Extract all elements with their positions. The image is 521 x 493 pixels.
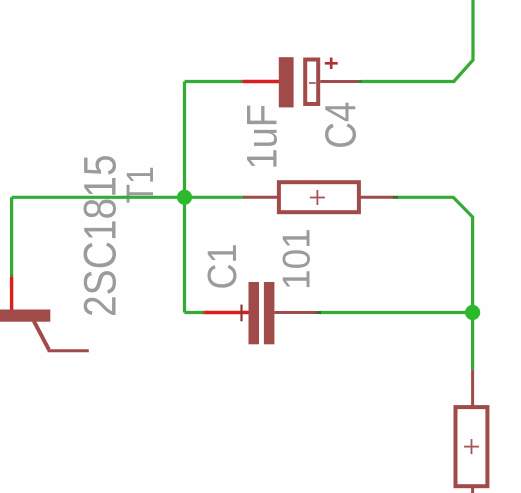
label 1uF value — [237, 104, 286, 169]
label T1 name — [120, 166, 162, 203]
wire net N1 horizontal to C4 — [361, 80, 455, 83]
svg-text:C4: C4 — [317, 102, 365, 149]
svg-text:1uF: 1uF — [237, 104, 286, 169]
svg-text:2SC1815: 2SC1815 — [75, 154, 126, 317]
wire net N3 vertical x=472.6 — [471, 216, 474, 370]
wire net N2 vertical left x=11.6 — [10, 197, 13, 276]
junction dot B at (472.6,312.5) — [465, 305, 480, 320]
resistor R2 vertical — [456, 370, 488, 493]
resistor R1 101 horizontal — [243, 182, 398, 212]
label 2SC1815 value — [75, 154, 126, 317]
junction dot A at (184.5,197.3) — [177, 190, 192, 205]
label C1 name — [200, 243, 246, 289]
transistor T1 2SC1815 — [0, 275, 89, 351]
capacitor C1 ceramic 101 — [202, 282, 321, 344]
label C4 name — [317, 102, 365, 149]
wire net N2 horizontal C4 left — [185, 80, 242, 83]
wire net N1 diagonal bend — [454, 60, 473, 82]
wire net N2 vertical x=184.5 — [183, 82, 186, 313]
svg-text:101: 101 — [276, 228, 319, 290]
wire net N2 horizontal to C1 — [185, 311, 205, 314]
capacitor C4 polarized 1uF — [241, 57, 363, 107]
wire net N2 horizontal row y=197 left — [12, 196, 244, 199]
wire net N3 diagonal bend right — [453, 197, 472, 217]
svg-text:C1: C1 — [200, 243, 246, 289]
wire net N3 horizontal row y=312.5 — [320, 311, 473, 314]
wire net N1 vertical to top edge — [471, 0, 474, 61]
label 101 value — [276, 228, 319, 290]
wire net N3 horizontal right of R1 — [397, 196, 454, 199]
